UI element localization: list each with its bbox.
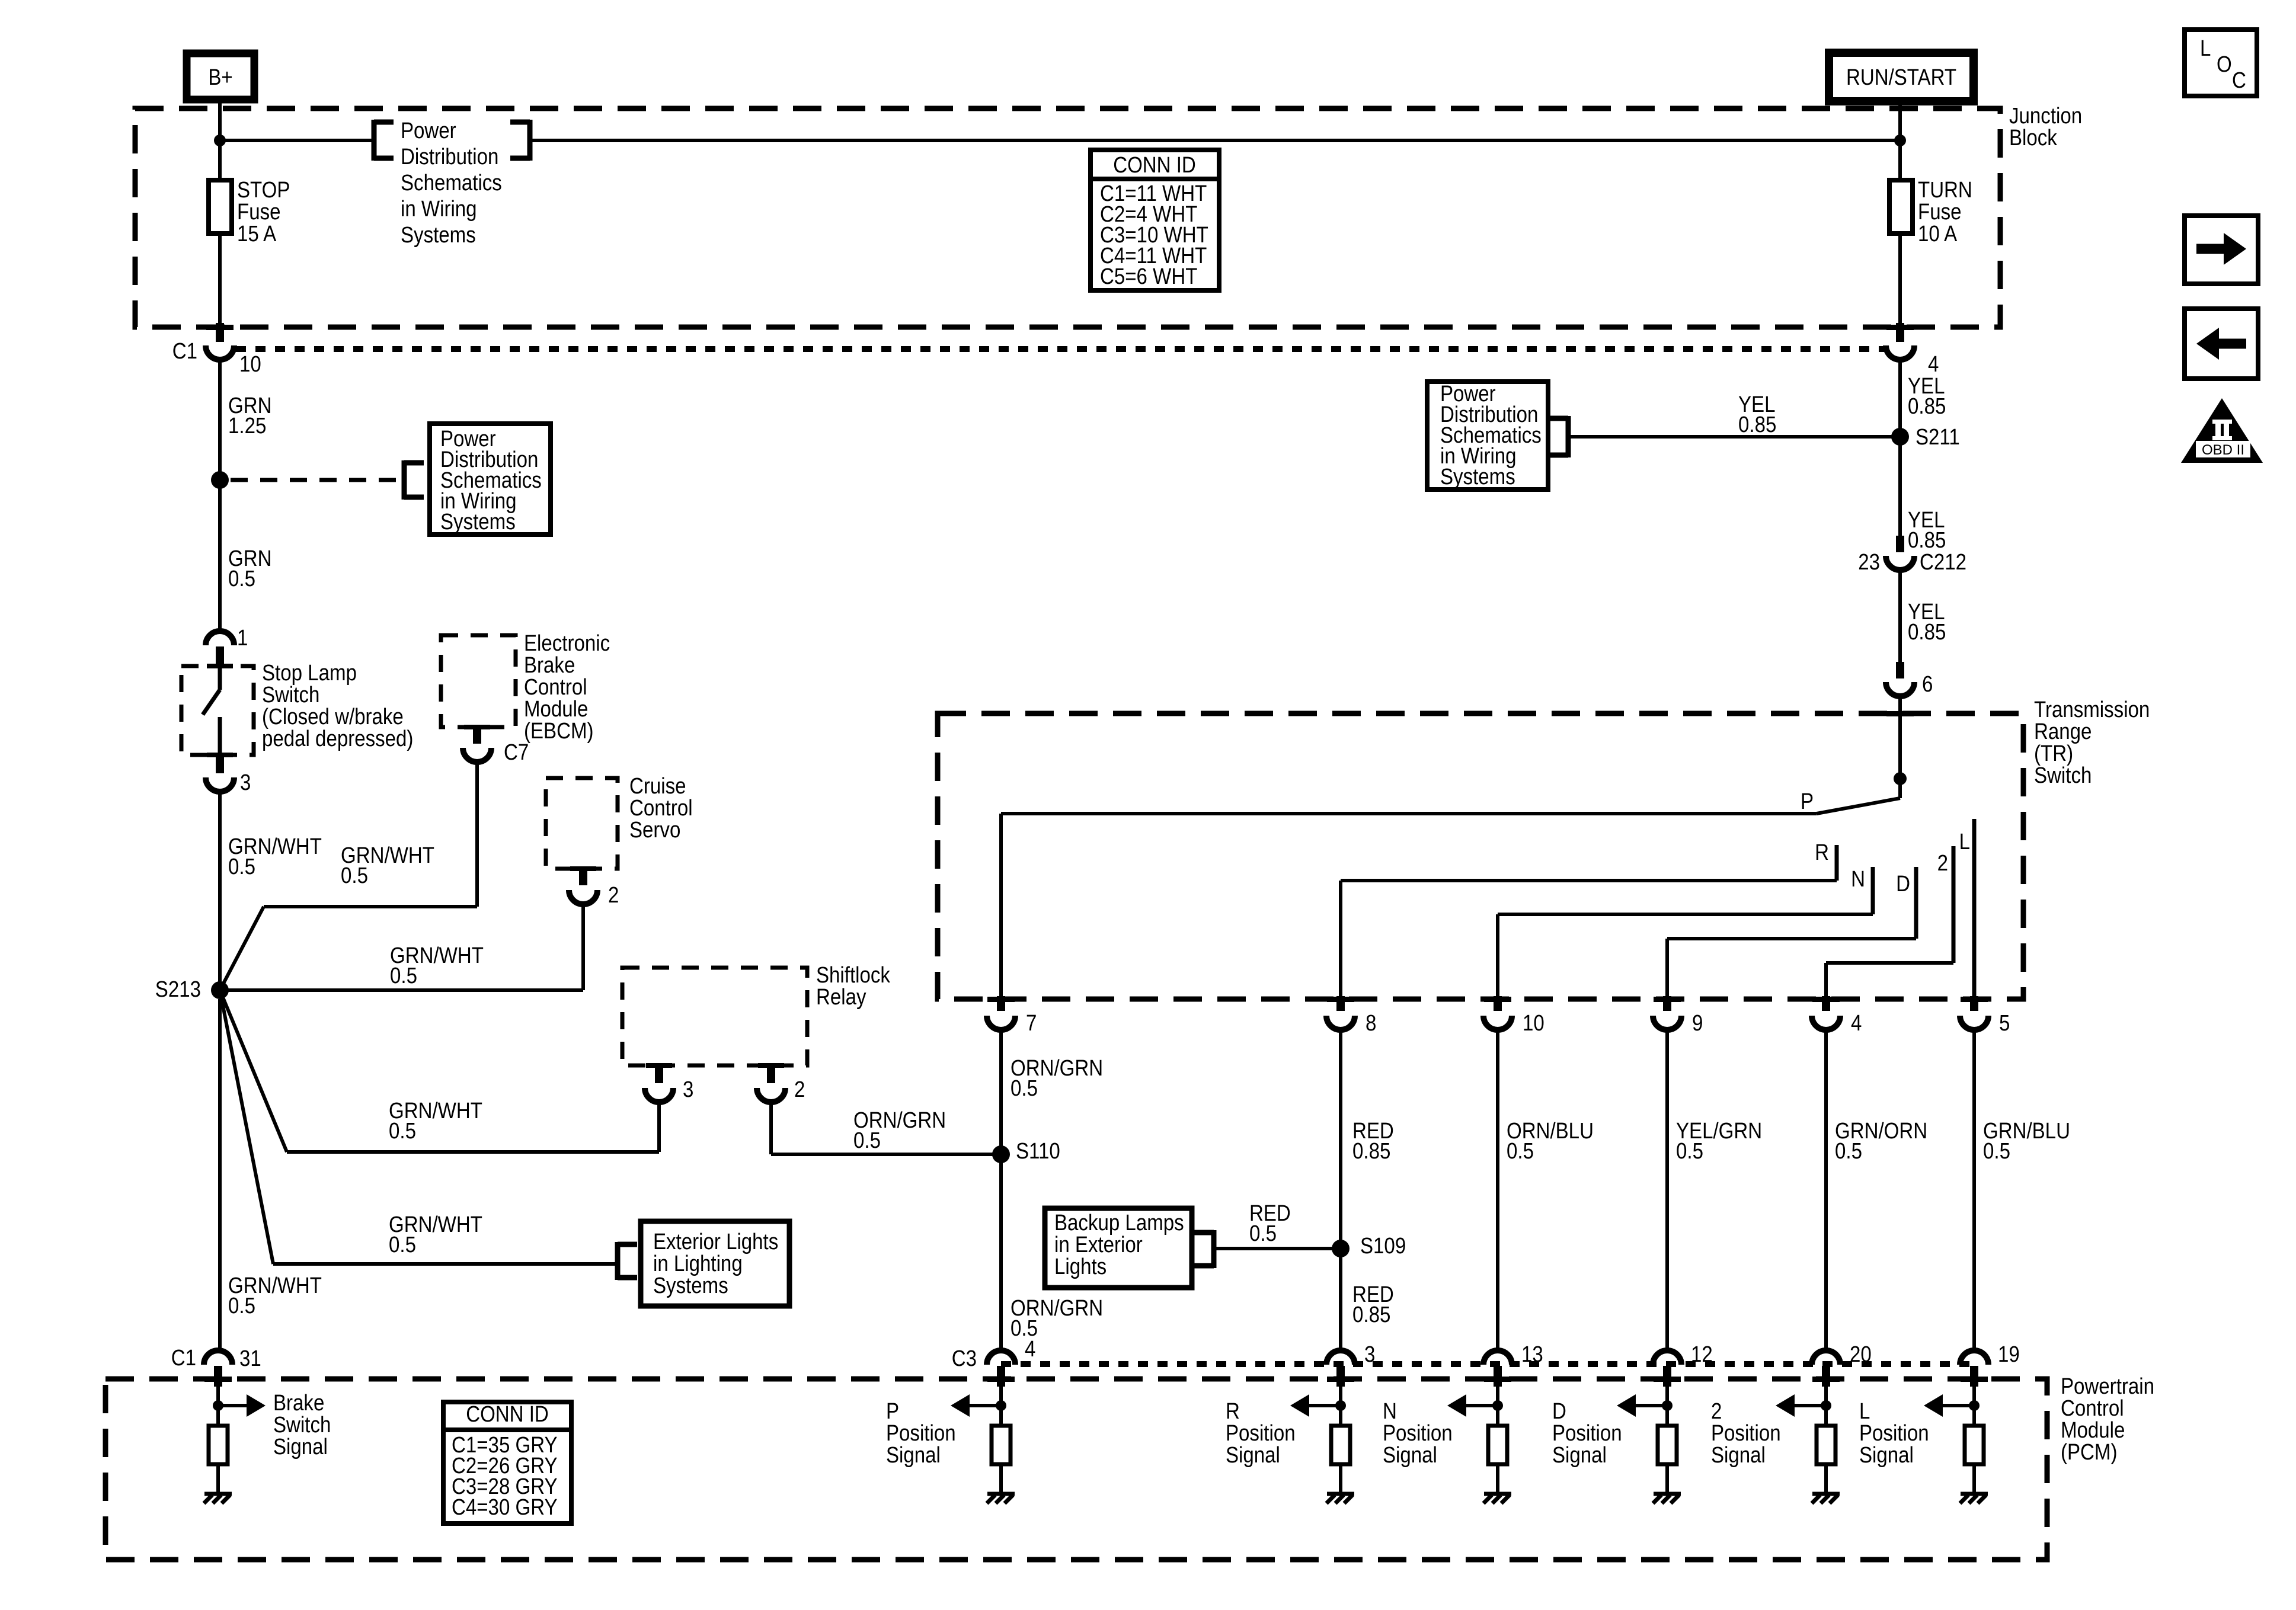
wire PCM 2 column (1824, 1387, 1828, 1426)
svg-text:CONN ID: CONN ID (1113, 152, 1196, 178)
svg-text:2: 2 (794, 1077, 805, 1102)
svg-text:1.25: 1.25 (228, 413, 266, 438)
svg-text:0.5: 0.5 (1011, 1076, 1038, 1101)
stop lamp switch bottom T-bar (207, 753, 233, 757)
svg-text:S213: S213 (155, 977, 201, 1002)
arrow icon right (2185, 216, 2258, 284)
wire N horizontal (1498, 913, 1873, 916)
arrow N position signal (1447, 1394, 1466, 1417)
stop lamp switch upper contact (218, 668, 222, 690)
wire PCM D column (1665, 1387, 1669, 1426)
svg-text:6: 6 (1922, 671, 1933, 697)
svg-text:S109: S109 (1360, 1233, 1406, 1259)
svg-text:Signal: Signal (886, 1442, 941, 1468)
svg-text:CONN ID: CONN ID (466, 1401, 549, 1427)
svg-text:7: 7 (1026, 1010, 1037, 1036)
svg-text:10 A: 10 A (1918, 221, 1957, 247)
svg-text:C1: C1 (171, 1345, 196, 1371)
svg-text:0.85: 0.85 (1738, 412, 1776, 437)
svg-text:0.85: 0.85 (1352, 1302, 1390, 1327)
svg-text:2: 2 (1937, 850, 1948, 876)
connector C212 pin 23 (1896, 536, 1904, 552)
bracket S211 reference (1566, 416, 1571, 457)
connector PCM pin 12 (1653, 1350, 1681, 1365)
connector pin 2 cruise servo (579, 869, 587, 885)
arrow L position signal (1924, 1394, 1943, 1417)
contact R stub (1835, 845, 1839, 881)
svg-text:0.85: 0.85 (1908, 619, 1946, 645)
svg-text:N: N (1851, 866, 1865, 892)
svg-text:0.5: 0.5 (341, 863, 368, 888)
arrow D position signal (1617, 1394, 1636, 1417)
svg-text:0.5: 0.5 (1983, 1138, 2010, 1164)
backup lamps box (1045, 1208, 1192, 1288)
svg-text:C212: C212 (1920, 549, 1966, 575)
svg-text:Signal: Signal (1383, 1442, 1437, 1468)
svg-text:Relay: Relay (816, 984, 866, 1010)
wire shiftlock pin2 down (769, 1102, 773, 1154)
wire pin6 into TR switch (1898, 696, 1902, 781)
svg-text:3: 3 (240, 770, 251, 795)
svg-text:0.85: 0.85 (1908, 393, 1946, 419)
wire diagonal to S213 (exterior lights branch) (220, 990, 273, 1264)
wire backup lamps to S109 (1214, 1247, 1341, 1250)
connector PCM pin 3 (1326, 1350, 1355, 1365)
exterior lights box (641, 1221, 789, 1306)
EBCM bottom T-bar (464, 725, 490, 729)
PCM top T-bar C1/31 (204, 1377, 232, 1382)
svg-text:B+: B+ (208, 65, 232, 90)
PCM top T-bar pin 19 (1961, 1377, 1988, 1382)
wire P to pin7 horizontal (1001, 812, 1817, 815)
bracket left of power distribution label (372, 120, 377, 161)
wire D down to pin 9 (1665, 939, 1669, 996)
svg-text:0.5: 0.5 (228, 566, 255, 591)
svg-text:23: 23 (1858, 549, 1880, 575)
wire D horizontal (1667, 937, 1916, 940)
svg-text:12: 12 (1691, 1342, 1713, 1367)
svg-text:0.5: 0.5 (228, 854, 255, 879)
connector junction pin 4 (1896, 323, 1904, 342)
shiftlock relay dashed box (622, 968, 807, 1065)
svg-text:Signal: Signal (1859, 1442, 1914, 1468)
wire cruise pin2 down (581, 904, 585, 990)
resistor P position (992, 1426, 1011, 1464)
TR switch blade to P (1817, 798, 1900, 814)
box power distribution (S241 ref) (430, 424, 551, 534)
splice S110 (992, 1145, 1010, 1163)
svg-text:19: 19 (1998, 1342, 2020, 1367)
PCM top T-bar pin 20 (1812, 1377, 1840, 1382)
node D position signal (1662, 1400, 1673, 1411)
connector TR pin 8 (1336, 996, 1345, 1011)
svg-text:0.5: 0.5 (389, 1118, 416, 1144)
wire C7 down (475, 762, 479, 907)
wire pin 3 to S213 (218, 792, 222, 990)
fuse TURN 10A symbol (1889, 180, 1913, 233)
connector PCM pin 19 (1960, 1350, 1988, 1365)
contact L wire down to pin 5 (1972, 819, 1977, 996)
svg-text:Signal: Signal (1226, 1442, 1280, 1468)
OBD II banner (2196, 441, 2250, 457)
svg-text:L: L (1959, 829, 1970, 854)
wire resistor to ground (N) (1496, 1464, 1499, 1494)
ground (2 column) (1812, 1492, 1840, 1496)
wire resistor to ground (L) (1972, 1464, 1976, 1494)
stop lamp switch dashed box (181, 666, 254, 755)
wire R down to pin 8 (1339, 881, 1342, 996)
svg-text:O: O (2217, 52, 2232, 77)
svg-text:0.5: 0.5 (853, 1128, 881, 1153)
contact N stub (1871, 867, 1875, 914)
bracket right of power distribution label (527, 120, 533, 161)
wire pin5 to PCM pin19 (1972, 1030, 1976, 1350)
wire pin10 to PCM pin13 (1496, 1030, 1499, 1350)
svg-text:0.5: 0.5 (1249, 1221, 1277, 1246)
bracket backup lamps (1211, 1230, 1217, 1268)
OBD II triangle (2181, 398, 2263, 463)
wire B+ down to C1 (218, 98, 222, 325)
shiftlock bottom T-bar pin2 (758, 1063, 784, 1068)
svg-text:4: 4 (1851, 1010, 1862, 1036)
svg-text:P: P (1801, 789, 1814, 814)
svg-text:pedal depressed): pedal depressed) (262, 726, 413, 751)
svg-text:(EBCM): (EBCM) (524, 718, 594, 744)
node on B+ feed (214, 135, 226, 146)
wire shiftlock pin2 to S110 (771, 1153, 1001, 1156)
wire 2 horizontal (1826, 961, 1953, 965)
svg-text:9: 9 (1692, 1010, 1703, 1036)
svg-text:C1: C1 (172, 338, 197, 364)
svg-text:Block: Block (2009, 125, 2057, 151)
svg-text:C4=30 GRY: C4=30 GRY (452, 1494, 558, 1520)
node R position signal (1335, 1400, 1346, 1411)
wire shiftlock pin3 horizontal (287, 1150, 659, 1154)
svg-text:S110: S110 (1016, 1138, 1060, 1164)
ground (N column) (1484, 1492, 1511, 1496)
fuse STOP 15A symbol (209, 180, 232, 233)
svg-text:Power: Power (401, 118, 456, 143)
arrow R position signal (1290, 1394, 1309, 1417)
node N position signal (1492, 1400, 1503, 1411)
svg-text:3: 3 (683, 1077, 693, 1102)
CONN ID box (PCM) (443, 1402, 571, 1523)
junction block bottom T-bar left (206, 325, 234, 330)
wire PCM P column (999, 1387, 1003, 1426)
connector pin 1 stop lamp switch (206, 631, 234, 645)
svg-text:S211: S211 (1916, 424, 1960, 450)
ground (L column) (1961, 1492, 1988, 1496)
arrow 2 position signal (1776, 1394, 1795, 1417)
svg-text:8: 8 (1366, 1010, 1376, 1036)
connector C1 pin 31 PCM (204, 1350, 232, 1365)
node 2 position signal (1821, 1400, 1831, 1411)
connector C1 pin 10 (216, 323, 224, 342)
resistor D position (1658, 1426, 1677, 1464)
svg-text:Signal: Signal (1711, 1442, 1766, 1468)
dotted connector line C1 (236, 346, 1885, 352)
wire cruise to S213 (220, 988, 583, 992)
ground (P column) (987, 1492, 1015, 1496)
dashed wire S241 to bracket (231, 478, 404, 482)
splice S241 (211, 471, 229, 489)
svg-text:Systems: Systems (653, 1273, 728, 1298)
svg-text:(PCM): (PCM) (2061, 1439, 2117, 1465)
svg-text:15 A: 15 A (237, 221, 276, 247)
junction block dashed box (135, 108, 2000, 327)
svg-text:C: C (2232, 68, 2246, 93)
TR bottom T-bar pin 4 (1812, 997, 1840, 1002)
svg-text:Signal: Signal (1552, 1442, 1607, 1468)
svg-text:0.5: 0.5 (1835, 1138, 1862, 1164)
stop lamp switch blade (open) (203, 690, 220, 715)
wire R horizontal (1341, 879, 1837, 882)
wire C1 to connector 1 (218, 360, 222, 630)
wire resistor to ground (brake) (216, 1464, 220, 1494)
node brake switch signal (213, 1400, 223, 1411)
connector PCM pin 13 (1483, 1350, 1512, 1365)
svg-text:C5=6 WHT: C5=6 WHT (1100, 264, 1197, 289)
TR bottom T-bar pin 10 (1484, 997, 1511, 1002)
connector C7 EBCM (473, 727, 481, 744)
svg-text:10: 10 (1523, 1010, 1544, 1036)
wire shiftlock pin3 down (657, 1102, 661, 1152)
wire C7 horizontal (264, 905, 477, 908)
cruise control servo dashed box (546, 778, 618, 869)
connector TR pin 9 (1663, 996, 1671, 1011)
TR bottom T-bar pin 7 (987, 997, 1015, 1002)
wire pin8 to PCM pin3 (1339, 1030, 1342, 1350)
OBD II pillar II (2212, 420, 2232, 440)
PCM top T-bar pin 12 (1654, 1377, 1681, 1382)
connector TR pin 7 (997, 996, 1005, 1011)
svg-text:5: 5 (1999, 1010, 2010, 1036)
junction block bottom T-bar right (1886, 325, 1914, 330)
wire P down to pin 7 (999, 814, 1003, 996)
arrow icon left (2185, 309, 2258, 379)
connector pin 3 stop lamp switch (216, 755, 224, 773)
svg-text:RUN/START: RUN/START (1846, 65, 1956, 90)
wire bracket to S211 (1568, 435, 1900, 438)
svg-text:Systems: Systems (440, 509, 516, 534)
svg-text:0.5: 0.5 (1676, 1138, 1703, 1164)
wire C212 down (1898, 570, 1902, 666)
connector PCM pin 20 (1812, 1350, 1840, 1365)
wire N down to pin 10 (1496, 914, 1499, 996)
PCM top T-bar pin 13 (1484, 1377, 1511, 1382)
ground (R column) (1327, 1492, 1354, 1496)
wire PCM R column (1339, 1387, 1342, 1426)
svg-text:0.5: 0.5 (390, 963, 417, 988)
svg-text:C3: C3 (952, 1346, 977, 1371)
connector TR pin 5 (1970, 996, 1978, 1011)
contact D stub (1914, 867, 1918, 939)
wire node to left bracket (220, 139, 373, 142)
wire S213 down to C1/31 (218, 999, 222, 1350)
resistor 2 position (1817, 1426, 1835, 1464)
splice S109 (1332, 1240, 1350, 1257)
svg-text:L: L (2200, 36, 2211, 61)
svg-text:C7: C7 (504, 740, 529, 765)
svg-text:Servo: Servo (629, 817, 680, 843)
TR switch pivot node (1894, 772, 1907, 785)
connector TR pin 4 (1822, 996, 1830, 1011)
svg-text:Switch: Switch (2034, 763, 2092, 788)
svg-text:20: 20 (1850, 1342, 1872, 1367)
battery feed terminal B+ (187, 53, 254, 100)
wire RUN/START down (1898, 101, 1902, 325)
svg-text:4: 4 (1025, 1336, 1035, 1362)
svg-text:Distribution: Distribution (401, 144, 498, 169)
svg-text:0.5: 0.5 (228, 1293, 255, 1318)
arrow brake switch signal (247, 1394, 266, 1417)
connector pin 2 shiftlock (767, 1065, 775, 1083)
connector pin 6 TR switch (1896, 662, 1904, 678)
svg-text:Systems: Systems (401, 222, 476, 248)
connector pin 3 shiftlock (655, 1065, 663, 1083)
wire resistor to ground (P) (999, 1464, 1003, 1494)
svg-text:OBD II: OBD II (2202, 442, 2244, 458)
splice S211 (1891, 428, 1909, 446)
ground (brake column) (204, 1492, 232, 1496)
wire PCM L column (1972, 1387, 1976, 1426)
resistor R position (1331, 1426, 1350, 1464)
PCM top T-bar C3 pin 4 (987, 1377, 1015, 1382)
wire PCM N column (1496, 1387, 1499, 1426)
wire pin7 to S110 (999, 1030, 1003, 1350)
svg-text:Schematics: Schematics (401, 170, 502, 196)
connector TR pin 10 (1494, 996, 1502, 1011)
svg-text:D: D (1896, 871, 1910, 897)
svg-text:0.5: 0.5 (389, 1232, 416, 1257)
transmission range switch dashed box (938, 713, 2023, 999)
contact 2 stub (1952, 846, 1956, 963)
dotted connector line C3 (1001, 1361, 1974, 1367)
node P position signal (996, 1400, 1006, 1411)
TR bottom T-bar pin 9 (1654, 997, 1681, 1002)
resistor brake switch (209, 1426, 228, 1464)
svg-text:31: 31 (239, 1346, 261, 1371)
wire bracket to RUN/START feed (530, 139, 1900, 142)
wire diagonal to S213 (EBCM branch) (220, 907, 264, 990)
svg-text:R: R (1815, 840, 1829, 865)
wire pin4 down to S211 (1898, 360, 1902, 552)
svg-text:Lights: Lights (1054, 1254, 1107, 1279)
wire pin4 to PCM pin20 (1824, 1030, 1828, 1350)
CONN ID box (junction) (1091, 150, 1219, 290)
svg-text:13: 13 (1521, 1342, 1543, 1367)
svg-text:Systems: Systems (1440, 464, 1515, 489)
wire resistor to ground (R) (1339, 1464, 1342, 1494)
bracket S241 reference (402, 460, 407, 500)
svg-text:2: 2 (608, 882, 619, 908)
svg-text:0.5: 0.5 (1507, 1138, 1534, 1164)
cruise box bottom T-bar (570, 866, 596, 871)
wire diagonal to S213 (shiftlock branch) (220, 990, 287, 1152)
resistor L position (1965, 1426, 1984, 1464)
svg-text:10: 10 (239, 351, 261, 377)
svg-text:1: 1 (237, 625, 248, 651)
TR bottom T-bar pin 5 (1961, 997, 1988, 1002)
PCM dashed box (105, 1379, 2047, 1560)
stop lamp switch lower contact (218, 717, 222, 755)
svg-text:Signal: Signal (273, 1434, 328, 1459)
TR bottom T-bar pin 8 (1327, 997, 1354, 1002)
TR switch top T-bar (1886, 711, 1914, 716)
resistor N position (1488, 1426, 1507, 1464)
EBCM dashed box (441, 635, 516, 727)
wire pin9 to PCM pin12 (1665, 1030, 1669, 1350)
shiftlock bottom T-bar pin3 (646, 1063, 672, 1068)
wire resistor to ground (D) (1665, 1464, 1669, 1494)
svg-text:3: 3 (1364, 1342, 1375, 1367)
splice S213 (211, 981, 229, 999)
locator LOC icon (2185, 30, 2257, 96)
box power distribution (S211 ref) (1427, 382, 1548, 489)
arrow P position signal (951, 1394, 970, 1417)
PCM top T-bar pin 3 (1327, 1377, 1354, 1382)
stop lamp switch top T-bar (207, 664, 233, 668)
wire exterior lights horizontal (273, 1262, 617, 1266)
node L position signal (1969, 1400, 1980, 1411)
node at RUN/START feed (1894, 135, 1906, 146)
TR switch blade stub (1898, 779, 1902, 798)
bracket exterior lights (615, 1242, 621, 1280)
ground (D column) (1654, 1492, 1681, 1496)
wire C1/31 to brake node (216, 1387, 220, 1426)
svg-text:in Wiring: in Wiring (401, 196, 477, 222)
wire resistor to ground (2) (1824, 1464, 1828, 1494)
wire 2 down to pin 4 (1824, 963, 1828, 996)
svg-text:0.85: 0.85 (1352, 1138, 1390, 1164)
connector PCM C3 pin 4 (987, 1350, 1015, 1365)
ignition feed terminal RUN/START (1829, 53, 1974, 101)
